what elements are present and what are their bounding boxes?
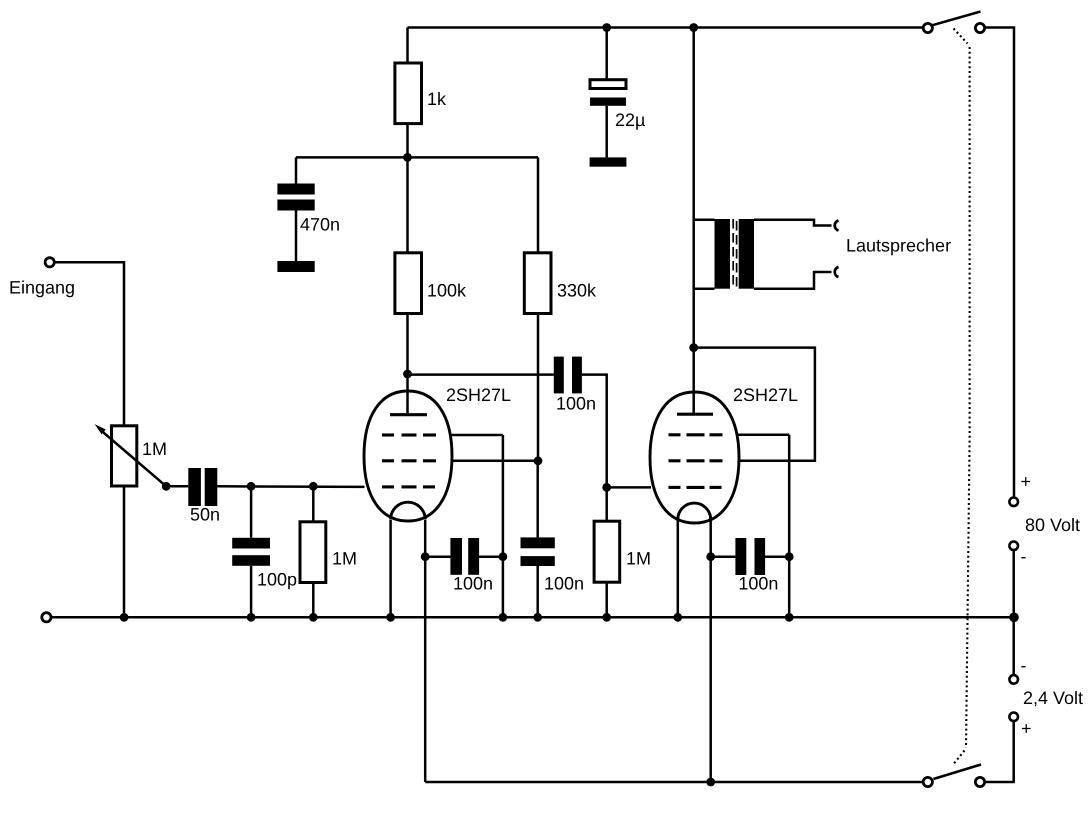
svg-text:100p: 100p <box>257 570 297 590</box>
wire 1k drop <box>406 28 409 64</box>
svg-text:330k: 330k <box>557 280 597 300</box>
wire 22u drop <box>605 28 608 80</box>
wire 22u lower <box>605 106 608 158</box>
wire 100k top <box>406 157 409 252</box>
wire 100k bottom <box>406 314 409 375</box>
capacitor 50n <box>188 468 217 506</box>
svg-text:2,4 Volt: 2,4 Volt <box>1023 688 1083 708</box>
svg-text:2SH27L: 2SH27L <box>446 385 511 405</box>
svg-text:Lautsprecher: Lautsprecher <box>846 236 951 256</box>
node wiper <box>162 482 171 491</box>
node rail 1M a <box>309 613 318 622</box>
wire 1k to node <box>406 124 409 158</box>
tube V1 anode <box>390 374 427 415</box>
wire heater bottom <box>425 781 923 784</box>
svg-text:80 Volt: 80 Volt <box>1025 515 1080 535</box>
wire top rail <box>408 26 924 29</box>
wire primary top stub <box>694 218 715 221</box>
svg-text:1M: 1M <box>332 549 357 569</box>
wire transformer/anode vertical <box>692 28 695 413</box>
node rail 1M b <box>602 613 611 622</box>
potentiometer 1M body <box>112 426 137 486</box>
svg-text:100n: 100n <box>556 394 596 414</box>
node rail V2 cathode <box>673 613 682 622</box>
node heater V2 <box>706 778 715 787</box>
svg-text:-: - <box>1021 547 1027 567</box>
node rail pot <box>120 613 129 622</box>
node anode V2 / feedback <box>689 343 698 352</box>
node rail V1 g2 <box>499 613 508 622</box>
tube V1 control grid g1 <box>382 485 435 488</box>
switch S1 top lever <box>933 12 981 26</box>
wire 50n to grid <box>217 485 364 488</box>
node top rail / 22u <box>602 23 611 32</box>
tube V2 grid g3 <box>669 459 723 462</box>
svg-text:22µ: 22µ <box>615 110 645 130</box>
svg-text:1M: 1M <box>142 439 167 459</box>
node top rail / transformer <box>689 23 698 32</box>
node right rail / bottom rail <box>1009 613 1019 623</box>
wire 100n c bottom <box>536 566 539 617</box>
tube V1 cathode <box>391 502 426 519</box>
tube V2 screen grid g2 <box>669 433 723 436</box>
terminal 2,4V plus <box>1009 713 1018 722</box>
svg-text:+: + <box>1021 472 1032 492</box>
node 100n d left <box>706 552 715 561</box>
node 100p <box>247 482 256 491</box>
node rail V1 cathode <box>386 613 395 622</box>
capacitor 100n a coupling <box>554 357 582 394</box>
wire V2 g2 right <box>738 434 789 437</box>
wire 330k top <box>537 157 540 252</box>
wire 470n drop <box>295 157 298 183</box>
wire grid V2 <box>607 486 651 489</box>
node 100n d right <box>785 552 794 561</box>
wire top right corner <box>985 28 1014 498</box>
tube V2 2SH27L envelope <box>650 392 739 523</box>
capacitor 100p <box>232 538 270 566</box>
wire 100n d right <box>765 555 789 558</box>
capacitor 22u electrolytic <box>590 80 626 106</box>
wire 1M a bottom <box>312 583 315 618</box>
resistor 330k <box>524 253 551 314</box>
node 1M grid <box>309 482 318 491</box>
wire 100n b right <box>479 555 503 558</box>
tube V2 control grid g1 <box>669 486 722 489</box>
node 100n b right <box>499 552 508 561</box>
node rail V2 g2 <box>785 613 794 622</box>
node grid V2 <box>602 483 611 492</box>
capacitor 100n c <box>521 537 555 566</box>
resistor 1k <box>395 63 422 124</box>
switch S1 top right contact <box>975 23 984 32</box>
wire secondary bottom <box>754 272 832 289</box>
svg-text:1M: 1M <box>626 549 651 569</box>
svg-text:2SH27L: 2SH27L <box>733 385 798 405</box>
terminal speaker top <box>835 221 839 231</box>
resistor 1M a <box>300 522 326 583</box>
terminal bar 22u <box>590 157 627 166</box>
switch S2 right contact <box>975 777 984 786</box>
wire input <box>54 262 124 426</box>
switch S2 bottom lever <box>933 765 981 780</box>
tube V1 screen grid g2 <box>382 433 436 436</box>
resistor 1M b <box>594 521 620 582</box>
wire V2 cathode left <box>677 520 680 617</box>
svg-text:100n: 100n <box>738 574 778 594</box>
wire anode V1 to coupling cap <box>408 373 554 376</box>
wire bottom rail <box>51 616 1014 619</box>
transformer T1 secondary winding <box>739 219 754 289</box>
svg-text:Eingang: Eingang <box>9 278 75 298</box>
wire 1M a top <box>312 486 315 522</box>
svg-text:50n: 50n <box>190 505 220 525</box>
wire 100n c top <box>536 461 539 538</box>
svg-text:470n: 470n <box>300 215 340 235</box>
node A (1k/100k/470n/330k) <box>403 153 412 162</box>
tube V2 cathode <box>678 503 711 519</box>
wire secondary top <box>754 220 832 226</box>
svg-text:1k: 1k <box>427 89 447 109</box>
wire 100p top <box>250 486 253 538</box>
wire 100p bottom <box>250 566 253 618</box>
switch S2 left contact <box>923 777 932 786</box>
wire pot bottom <box>123 486 126 617</box>
svg-text:+: + <box>1021 719 1032 739</box>
tube V2 anode <box>677 413 713 416</box>
wire coupling cap to grid V2 <box>582 375 607 488</box>
svg-text:100n: 100n <box>453 574 493 594</box>
wire wiper to 50n <box>166 485 188 488</box>
wire 100n d left <box>711 555 736 558</box>
terminal 2,4V minus <box>1009 675 1018 684</box>
wire node A horizontal <box>296 156 538 159</box>
wire right rail bottom <box>985 722 1014 783</box>
potentiometer arrow <box>95 424 167 486</box>
terminal 80V plus <box>1009 498 1018 507</box>
wire right rail mid <box>1012 551 1015 675</box>
wire primary bottom stub <box>694 287 715 290</box>
terminal Eingang <box>45 258 54 267</box>
transformer core <box>733 219 736 289</box>
capacitor 100n b <box>450 538 479 575</box>
wire V1 cathode left <box>389 520 392 617</box>
terminal speaker bottom <box>835 267 839 277</box>
capacitor 470n <box>277 184 314 211</box>
wire 100n b left <box>425 555 450 558</box>
wire V1 g2 down <box>502 435 505 617</box>
terminal 80V minus <box>1009 542 1018 551</box>
node 100n b left <box>421 552 430 561</box>
svg-text:100n: 100n <box>544 574 584 594</box>
transformer T1 primary winding <box>715 219 731 289</box>
wire feedback box <box>694 348 815 461</box>
terminal ground left <box>42 613 51 622</box>
wire V1 g3 to 330k <box>452 460 539 463</box>
node rail 100n c <box>533 613 542 622</box>
svg-text:-: - <box>1021 656 1027 676</box>
svg-text:100k: 100k <box>427 280 467 300</box>
switch S1 top left contact <box>923 23 932 32</box>
tube V1 grid g3 <box>382 459 436 462</box>
wire V2 g2 down <box>788 435 791 618</box>
switch linkage dotted <box>954 29 970 764</box>
wire V1 g2 to 100n <box>452 434 503 437</box>
tube V1 2SH27L envelope <box>364 391 452 521</box>
resistor 100k <box>395 253 422 314</box>
node rail 100p <box>247 613 256 622</box>
wire 470n lower <box>295 211 298 262</box>
wire V2 cathode right / heater <box>709 520 712 782</box>
node 330k / grid2 V1 <box>534 456 543 465</box>
wire 1M b bottom <box>605 582 608 617</box>
capacitor 100n d <box>735 538 765 575</box>
wire 1M b top <box>605 487 608 521</box>
wire 330k bottom <box>537 314 540 461</box>
terminal bar 470n <box>277 261 314 272</box>
node anode V1 <box>403 370 412 379</box>
wire V1 cathode right / heater <box>424 520 427 782</box>
